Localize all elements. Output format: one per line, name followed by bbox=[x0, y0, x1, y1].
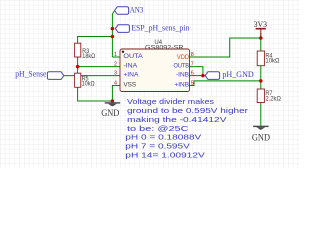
svg-text:18kΩ: 18kΩ bbox=[82, 53, 95, 60]
svg-text:1: 1 bbox=[114, 52, 117, 58]
svg-text:ESP_pH_sens_pin: ESP_pH_sens_pin bbox=[131, 24, 189, 33]
wire -INA bbox=[78, 66, 120, 68]
junction R3 tee bbox=[111, 35, 115, 39]
svg-text:7: 7 bbox=[191, 62, 194, 68]
svg-text:3V3: 3V3 bbox=[254, 19, 268, 29]
junction GND left bbox=[111, 99, 115, 103]
wire net AN3/ESP/OUTA vertical bbox=[112, 11, 114, 58]
ground GND left bbox=[101, 101, 120, 118]
svg-text:-INA: -INA bbox=[123, 63, 138, 70]
svg-text:making the -0.41412V: making the -0.41412V bbox=[127, 115, 227, 124]
wire VDD to 3V3 bbox=[190, 38, 261, 57]
svg-text:AN3: AN3 bbox=[130, 5, 144, 14]
svg-text:OUTA: OUTA bbox=[123, 53, 143, 60]
net flag AN3 bbox=[115, 5, 144, 14]
svg-text:OUTB: OUTB bbox=[174, 63, 190, 70]
svg-text:pH_Sense: pH_Sense bbox=[15, 70, 47, 79]
junction OUTB/-INB/pH_GND bbox=[201, 74, 205, 78]
wire R3 bottom to R5 top bbox=[77, 57, 79, 73]
wire OUTB feedback bbox=[190, 67, 203, 76]
svg-text:8: 8 bbox=[191, 52, 194, 58]
wire 3V3 rail to R4 bbox=[260, 33, 262, 51]
svg-text:Voltage divider makes: Voltage divider makes bbox=[127, 97, 214, 106]
junction 3V3/VDD bbox=[259, 36, 263, 40]
wire VSS to GND junction bbox=[112, 86, 120, 102]
svg-text:-INB: -INB bbox=[176, 72, 189, 79]
svg-text:10kΩ: 10kΩ bbox=[265, 57, 279, 64]
annotation text block bbox=[125, 97, 249, 159]
wire OUTA pin stub bbox=[112, 56, 120, 58]
svg-text:2: 2 bbox=[114, 62, 117, 68]
wire R3 top tee bbox=[78, 37, 113, 44]
power flag 3V3 bbox=[254, 19, 268, 38]
svg-text:GND: GND bbox=[101, 108, 119, 118]
junction ESP_pH_sens_pin bbox=[111, 27, 115, 31]
svg-text:6: 6 bbox=[191, 71, 194, 77]
svg-text:GND: GND bbox=[252, 133, 270, 143]
net flag pH_Sense bbox=[15, 70, 64, 80]
svg-text:GS8092-SR: GS8092-SR bbox=[145, 44, 184, 51]
wire pH_Sense to +INA bbox=[64, 75, 120, 77]
op-amp U4 GS8092-SR bbox=[114, 39, 194, 91]
wire R5 bottom to GND junction bbox=[78, 87, 113, 101]
ground GND right bbox=[252, 126, 270, 143]
svg-text:pH 0 = 0.18088V: pH 0 = 0.18088V bbox=[125, 133, 201, 142]
svg-text:pH 14= 1.00912V: pH 14= 1.00912V bbox=[125, 151, 205, 160]
svg-text:pH 7 = 0.595V: pH 7 = 0.595V bbox=[125, 142, 190, 151]
junction divider node bbox=[259, 79, 263, 83]
svg-text:4: 4 bbox=[114, 81, 117, 87]
svg-text:+INA: +INA bbox=[123, 72, 139, 79]
resistor R7 bbox=[257, 89, 281, 103]
svg-text:10kΩ: 10kΩ bbox=[82, 80, 95, 87]
svg-text:2.2kΩ: 2.2kΩ bbox=[265, 95, 281, 102]
wire rail R4 to R7 bbox=[260, 66, 262, 89]
svg-text:3: 3 bbox=[114, 71, 117, 77]
wire -INB to pH_GND flag bbox=[190, 75, 206, 77]
svg-text:5: 5 bbox=[191, 81, 194, 87]
resistor R5 bbox=[75, 73, 95, 87]
wire +INB to divider node bbox=[190, 81, 261, 86]
net flag ESP_pH_sens_pin bbox=[115, 24, 189, 33]
svg-text:ground to be 0.595V higher: ground to be 0.595V higher bbox=[127, 106, 249, 115]
svg-text:+INB: +INB bbox=[175, 81, 190, 88]
svg-text:VSS: VSS bbox=[123, 81, 136, 88]
wire R7 to GND bbox=[260, 103, 262, 126]
svg-text:pH_GND: pH_GND bbox=[222, 70, 254, 79]
svg-text:to be: @25C: to be: @25C bbox=[127, 124, 189, 133]
svg-text:VDD: VDD bbox=[177, 54, 189, 61]
net flag pH_GND bbox=[205, 70, 254, 80]
resistor R4 bbox=[257, 51, 280, 66]
junction R3/R5/-INA bbox=[76, 65, 80, 69]
resistor R3 bbox=[75, 43, 96, 60]
